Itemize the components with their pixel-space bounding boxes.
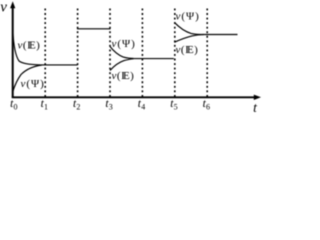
svg-text:ν(IE): ν(IE) [112, 70, 135, 82]
svg-text:4: 4 [141, 103, 145, 112]
svg-text:ν(IE): ν(IE) [18, 39, 41, 51]
svg-text:2: 2 [76, 103, 80, 112]
svg-text:ν(Ψ): ν(Ψ) [112, 38, 136, 50]
svg-text:5: 5 [174, 103, 178, 112]
svg-text:1: 1 [44, 103, 48, 112]
svg-text:t: t [253, 100, 258, 115]
svg-text:ν(Ψ): ν(Ψ) [176, 10, 200, 22]
svg-text:ν(Ψ): ν(Ψ) [21, 78, 45, 90]
svg-text:3: 3 [109, 103, 113, 112]
svg-text:ν: ν [0, 0, 7, 15]
svg-text:6: 6 [206, 103, 210, 112]
svg-text:ν(IE): ν(IE) [176, 44, 199, 56]
svg-text:0: 0 [14, 103, 18, 112]
